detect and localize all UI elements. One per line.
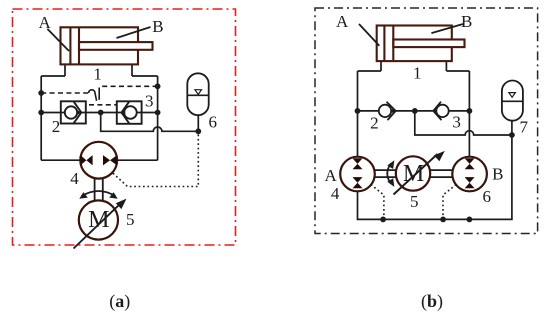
svg-text:4: 4 xyxy=(70,169,79,188)
svg-text:M: M xyxy=(88,207,109,233)
svg-text:(a): (a) xyxy=(109,291,130,312)
svg-text:7: 7 xyxy=(520,118,529,137)
svg-text:3: 3 xyxy=(452,113,461,132)
svg-text:4: 4 xyxy=(331,184,340,203)
svg-text:6: 6 xyxy=(483,187,492,206)
svg-text:1: 1 xyxy=(93,65,102,84)
svg-text:5: 5 xyxy=(126,210,135,229)
svg-text:B: B xyxy=(461,12,472,31)
svg-text:2: 2 xyxy=(52,117,61,136)
svg-text:2: 2 xyxy=(370,113,379,132)
svg-text:B: B xyxy=(152,17,163,36)
svg-text:B: B xyxy=(492,164,503,183)
svg-text:A: A xyxy=(336,12,349,31)
svg-text:A: A xyxy=(325,166,338,185)
svg-text:5: 5 xyxy=(410,192,419,211)
svg-text:3: 3 xyxy=(145,92,154,111)
svg-text:(b): (b) xyxy=(421,291,443,312)
svg-text:6: 6 xyxy=(209,113,218,132)
svg-text:A: A xyxy=(38,13,51,32)
svg-text:1: 1 xyxy=(413,64,422,83)
